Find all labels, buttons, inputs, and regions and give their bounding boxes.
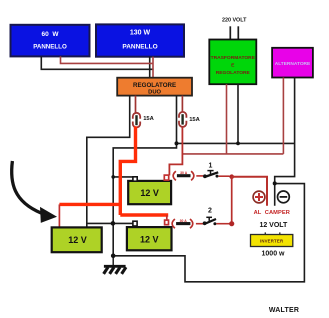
svg-text:DUO: DUO xyxy=(148,90,161,96)
svg-text:AL CAMPER: AL CAMPER xyxy=(254,210,290,216)
wire negative bus between batteries xyxy=(87,222,135,224)
wire 220V feed left xyxy=(229,26,231,39)
svg-text:PANNELLO: PANNELLO xyxy=(33,44,67,51)
junction dot regulator negative xyxy=(175,141,179,145)
fuse holder FH1 30A left clip xyxy=(173,171,176,180)
wire thick positive to battery B2 xyxy=(59,203,122,206)
junction dot positive node top xyxy=(229,174,234,179)
solar panel PV2 130W xyxy=(96,24,184,56)
transformer U2 TRASFORMATORE E REGOLATORE xyxy=(209,40,256,85)
wire transformer positive drop (dark red) xyxy=(226,84,228,154)
fuse F2 15A holder xyxy=(179,112,201,127)
wire 220V feed right xyxy=(237,26,239,39)
wire positive node vertical xyxy=(231,177,233,224)
junction dot positive node bottom xyxy=(229,221,234,226)
svg-text:REGOLATORE: REGOLATORE xyxy=(216,70,251,76)
svg-text:WALTER: WALTER xyxy=(269,307,299,314)
inverter INVERTER 1000w xyxy=(251,235,293,247)
wire transformer negative drop xyxy=(237,84,239,143)
wire panel1 negative to panel2 drop xyxy=(41,56,153,69)
wire FH1 to switch S1 xyxy=(196,175,203,177)
fuse holder FH1 30A right clip xyxy=(191,171,194,180)
wire battery B1 negative tap xyxy=(113,176,133,178)
wire FH2 to switch S2 xyxy=(196,223,203,225)
battery B2 12V xyxy=(52,227,102,252)
switch S2 xyxy=(203,208,217,226)
svg-text:15A: 15A xyxy=(189,117,200,123)
wire switch S1 to junction xyxy=(219,175,230,177)
wire panel2 positive drop to regulator xyxy=(152,57,154,78)
svg-text:130 W: 130 W xyxy=(130,30,151,37)
wire alternator negative to inverter enclosure xyxy=(275,78,295,206)
terminal negative AL CAMPER xyxy=(278,191,290,203)
svg-text:1: 1 xyxy=(209,162,213,169)
label 1000 w xyxy=(262,251,286,258)
battery B3 12V xyxy=(127,227,172,250)
svg-text:15A: 15A xyxy=(143,116,154,122)
label WALTER xyxy=(269,307,299,314)
fuse F1 15A lead xyxy=(135,96,137,113)
junction dot enclosure top xyxy=(273,181,277,185)
svg-text:12 V: 12 V xyxy=(140,188,159,198)
wire positive to camper terminal xyxy=(232,177,267,206)
svg-text:PANNELLO: PANNELLO xyxy=(122,44,157,51)
battery B3 negative terminal xyxy=(133,221,137,226)
svg-text:TRASFORMATORE: TRASFORMATORE xyxy=(211,55,256,61)
regulator U1 REGOLATORE DUO xyxy=(117,78,192,96)
svg-text:30 A: 30 A xyxy=(180,171,188,175)
battery B1 negative terminal xyxy=(133,177,137,181)
battery B1 12V xyxy=(128,181,171,204)
wire regulator right negative drop xyxy=(176,96,178,144)
wire regulator left negative down-left to battery B2 xyxy=(87,96,130,228)
fuse holder FH2 30A element xyxy=(176,219,190,223)
wire panel2 negative drop to regulator xyxy=(149,57,151,78)
wire inverter enclosure loop xyxy=(113,184,304,282)
fuse holder FH2 30A left clip xyxy=(172,219,175,228)
wire thick positive to battery B3 xyxy=(120,213,168,216)
battery B3 positive terminal xyxy=(165,220,169,225)
junction dot transformer negative xyxy=(236,142,240,146)
fuse F1 15A holder xyxy=(133,113,155,128)
wire battery B2 positive stub xyxy=(58,204,60,227)
svg-text:30 A: 30 A xyxy=(180,219,188,223)
svg-text:12 V: 12 V xyxy=(140,235,159,245)
fuse F2 15A lead xyxy=(181,96,183,112)
junction dot negative bus xyxy=(111,221,116,226)
fuse holder FH2 30A right clip xyxy=(190,219,193,228)
wire panel1 positive (dark red) xyxy=(61,56,154,63)
svg-text:REGOLATORE: REGOLATORE xyxy=(133,82,176,89)
annotation arrow xyxy=(12,161,57,223)
label AL CAMPER xyxy=(254,210,290,216)
wire positive bus (dark red) xyxy=(182,153,283,155)
alternator G1 ALTERNATORE xyxy=(272,48,313,78)
junction dot ground node xyxy=(111,254,116,259)
wire negative branch down to ground rail xyxy=(113,143,176,255)
wire negative bus to alternator side xyxy=(177,142,295,144)
switch S1 xyxy=(203,162,219,178)
svg-text:INVERTER: INVERTER xyxy=(260,238,284,243)
ground chassis symbol xyxy=(104,256,126,274)
label 220 VOLT xyxy=(222,17,247,23)
fuse holder FH1 30A element xyxy=(177,171,191,176)
solar panel PV1 60W xyxy=(11,25,90,57)
wire fuse F2 to battery B1 positive xyxy=(169,127,182,175)
svg-text:12 V: 12 V xyxy=(68,235,87,245)
svg-text:220 VOLT: 220 VOLT xyxy=(222,17,247,23)
wire thick positive from fuse F1 down xyxy=(120,126,135,215)
svg-text:60 W: 60 W xyxy=(42,31,60,38)
svg-text:2: 2 xyxy=(208,208,212,215)
inverter leads xyxy=(265,232,280,234)
terminal positive AL CAMPER xyxy=(253,191,265,203)
svg-text:1000 w: 1000 w xyxy=(262,251,286,258)
svg-text:ALTERNATORE: ALTERNATORE xyxy=(275,61,311,67)
wire switch S2 to junction xyxy=(216,223,229,225)
wire alternator positive drop (dark red) xyxy=(282,78,284,154)
svg-text:12 VOLT: 12 VOLT xyxy=(259,222,288,229)
label 12 VOLT xyxy=(259,222,288,229)
wire battery B3 positive stub xyxy=(166,215,168,220)
battery B1 positive terminal xyxy=(164,175,168,180)
junction dot battery B1 negative tap xyxy=(111,175,115,179)
